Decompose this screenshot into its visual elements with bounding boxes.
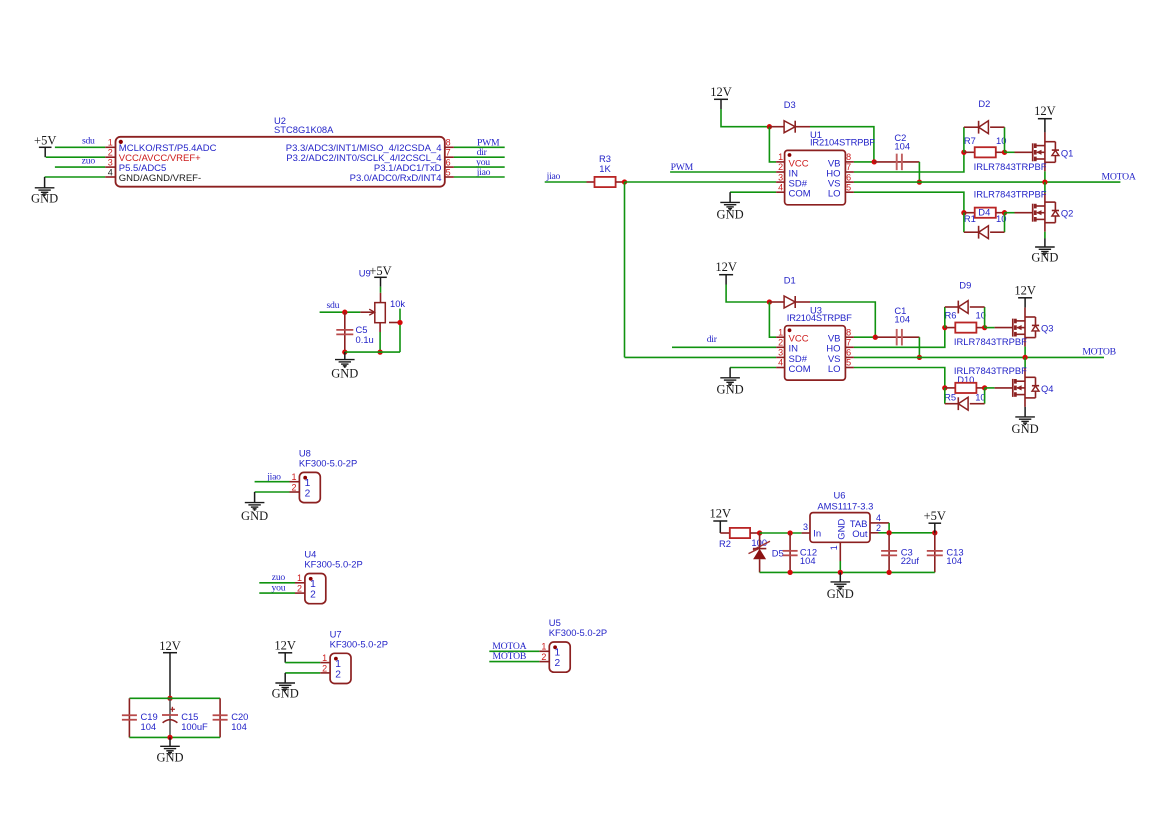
svg-text:22uf: 22uf: [901, 555, 920, 566]
svg-text:MOTOA: MOTOA: [1102, 171, 1136, 182]
svg-text:12V: 12V: [710, 85, 732, 99]
svg-text:KF300-5.0-2P: KF300-5.0-2P: [304, 559, 362, 570]
junction R5 right: [982, 385, 987, 390]
svg-text:4: 4: [876, 513, 881, 523]
junction pot right: [397, 320, 402, 325]
ground GND (U7): [272, 673, 299, 701]
transistor Q3 IRLR7843TRPBF: [954, 308, 1054, 348]
net label MOTOB: [1082, 347, 1116, 358]
diode D9: [945, 280, 985, 328]
wire R2 node to C12/In: [760, 532, 802, 534]
svg-text:IR2104STRPBF: IR2104STRPBF: [810, 137, 875, 148]
svg-text:R2: R2: [719, 538, 731, 549]
junction 12V/D1 (U3): [767, 299, 772, 304]
junction R1 left: [961, 210, 966, 215]
junction VB/C2: [872, 159, 877, 164]
svg-text:12V: 12V: [710, 507, 732, 521]
capacitor C12 104: [772, 533, 817, 572]
svg-text:2: 2: [108, 148, 113, 158]
svg-text:Q3: Q3: [1041, 323, 1054, 334]
net label jiao (R3 input): [546, 171, 561, 182]
svg-text:104: 104: [946, 555, 962, 566]
svg-text:100uF: 100uF: [181, 721, 208, 732]
svg-text:KF300-5.0-2P: KF300-5.0-2P: [330, 638, 388, 649]
wire VS to MOTOB: [854, 356, 1104, 358]
svg-text:7: 7: [446, 148, 451, 158]
wire R3 to U1 SD#: [625, 181, 777, 183]
resistor R6 10: [945, 309, 986, 332]
junction R7 right: [1002, 150, 1007, 155]
resistor R3 1K: [587, 153, 625, 187]
svg-text:+5V: +5V: [924, 509, 946, 523]
wire top rail (caps): [129, 697, 220, 699]
svg-text:IRLR7843TRPBF: IRLR7843TRPBF: [974, 161, 1047, 172]
wire to U3 SD#: [625, 356, 777, 358]
svg-text:GND: GND: [1031, 251, 1058, 265]
potentiometer U9 10k: [359, 268, 406, 333]
svg-text:R1: R1: [964, 213, 976, 224]
connector U7 KF300-5.0-2P: [320, 628, 388, 683]
ground GND (Q4): [1012, 407, 1039, 436]
ground GND (cap bank): [156, 737, 183, 764]
wire U2 pin5 jiao: [454, 176, 505, 178]
diode D4: [964, 213, 1005, 239]
wire U1 HO to R7: [854, 152, 964, 172]
svg-text:KF300-5.0-2P: KF300-5.0-2P: [299, 458, 357, 469]
svg-text:2: 2: [876, 523, 881, 533]
svg-text:1: 1: [541, 642, 546, 652]
wire zuo to U4 pin1: [259, 582, 295, 584]
svg-text:104: 104: [231, 721, 247, 732]
ground GND (pot): [331, 352, 358, 380]
svg-text:GND: GND: [717, 207, 744, 221]
svg-text:6: 6: [446, 157, 451, 167]
wire U1 VB to junction: [854, 161, 874, 163]
svg-text:sdu: sdu: [327, 300, 340, 311]
connector U5 KF300-5.0-2P: [539, 617, 607, 672]
capacitor C19 104: [122, 698, 158, 737]
junction rail/C12: [787, 570, 792, 575]
wire dir to U3 IN: [672, 346, 776, 348]
junction MOTOA node: [1042, 179, 1047, 184]
svg-text:PWM: PWM: [671, 162, 694, 173]
svg-text:2: 2: [297, 584, 302, 594]
connector U8 KF300-5.0-2P: [290, 447, 358, 502]
svg-text:MOTOB: MOTOB: [1082, 347, 1116, 358]
svg-text:3: 3: [778, 348, 783, 358]
power 12V (Q1): [1034, 104, 1056, 132]
svg-text:6: 6: [846, 172, 851, 182]
wire PWM to U1 IN: [670, 171, 776, 173]
regulator U6 AMS1117-3.3: [802, 490, 881, 561]
net label PWM (U1 IN): [671, 162, 694, 173]
junction GND rail: [167, 735, 172, 740]
svg-text:you: you: [272, 582, 286, 593]
wire U3 LO to R5: [854, 368, 945, 388]
wire bottom rail (caps): [129, 736, 220, 738]
wire D1 to VB node: [810, 302, 875, 336]
LED D5: [749, 533, 771, 572]
diode D10: [945, 388, 985, 410]
capacitor C5 0.1u: [336, 312, 373, 352]
connector U4 KF300-5.0-2P: [295, 549, 363, 604]
svg-text:AMS1117-3.3: AMS1117-3.3: [817, 501, 873, 512]
gate driver U3 IR2104STRPBF: [776, 304, 854, 380]
wire gate Q2: [1005, 212, 1033, 214]
svg-text:dir: dir: [707, 334, 718, 345]
wire bottom rail (U6): [760, 571, 935, 573]
net label zuo (U2 pin3): [82, 156, 96, 167]
svg-text:4: 4: [108, 167, 113, 177]
svg-text:2: 2: [310, 590, 316, 601]
wire U2 pin4 to ground: [45, 176, 106, 178]
svg-text:5: 5: [846, 182, 851, 192]
junction 12V/D3 (U1): [767, 124, 772, 129]
svg-text:5: 5: [846, 358, 851, 368]
svg-text:Q4: Q4: [1041, 383, 1054, 394]
svg-text:GND: GND: [241, 509, 268, 523]
junction pot bottom: [377, 349, 382, 354]
junction C12 top: [787, 530, 792, 535]
svg-text:1: 1: [291, 472, 296, 482]
svg-text:MOTOB: MOTOB: [493, 651, 527, 662]
junction Out/+5V: [932, 530, 937, 535]
wire MOTOB to U5 pin2: [489, 661, 539, 663]
svg-text:IRLR7843TRPBF: IRLR7843TRPBF: [974, 189, 1047, 200]
svg-text:0.1u: 0.1u: [356, 334, 374, 345]
net label MOTOB (U5): [493, 651, 527, 662]
wire +5V to U2 pin2: [46, 156, 105, 158]
net label you (U2 pin6): [476, 157, 490, 168]
wire Q1 source to MOTOA node: [1044, 171, 1046, 182]
svg-text:Out: Out: [852, 529, 868, 540]
svg-text:4: 4: [778, 358, 783, 368]
svg-text:1: 1: [778, 327, 783, 337]
net label jiao (U2 pin5): [476, 167, 491, 178]
transistor Q4 IRLR7843TRPBF: [954, 365, 1054, 407]
svg-text:+5V: +5V: [34, 133, 56, 147]
svg-text:7: 7: [846, 338, 851, 348]
wire pot bottom: [379, 332, 381, 352]
wire sdu to wiper: [320, 311, 361, 313]
svg-text:2: 2: [322, 663, 327, 673]
junction rail/GND: [838, 570, 843, 575]
wire U2 pin6 you: [454, 166, 505, 168]
svg-text:3: 3: [778, 172, 783, 182]
resistor R5 10: [944, 374, 986, 403]
wire U1 COM to ground: [730, 191, 776, 193]
wire D3 to VB node: [810, 127, 874, 161]
wire U2 pin8 PWM: [454, 146, 505, 148]
power 12V (U7): [274, 639, 296, 663]
ground GND (U8): [241, 492, 268, 523]
svg-text:GND: GND: [827, 587, 854, 601]
svg-text:12V: 12V: [1014, 283, 1036, 297]
svg-text:1: 1: [297, 573, 302, 583]
svg-text:COM: COM: [789, 364, 811, 375]
net label PWM (U2 pin8): [477, 137, 500, 148]
capacitor C15 100uF: [162, 698, 208, 737]
svg-text:1: 1: [829, 545, 839, 550]
svg-text:GND: GND: [836, 519, 847, 540]
svg-text:5: 5: [446, 167, 451, 177]
power 12V (U1): [710, 85, 732, 109]
wire Q2 source to ground: [1044, 232, 1046, 239]
svg-text:3: 3: [803, 522, 808, 532]
wire Q3 source to MOTOB node: [1024, 347, 1026, 358]
svg-text:In: In: [813, 529, 821, 540]
wire pot right branch: [399, 309, 401, 353]
ground GND (U1 COM): [717, 192, 744, 221]
power 12V (Q3): [1014, 283, 1036, 307]
junction R1 right: [1002, 210, 1007, 215]
svg-text:R7: R7: [964, 135, 976, 146]
svg-text:P3.0/ADC0/RxD/INT4: P3.0/ADC0/RxD/INT4: [350, 173, 442, 184]
svg-text:104: 104: [894, 313, 910, 324]
net label dir (U3 IN): [707, 334, 718, 345]
svg-text:KF300-5.0-2P: KF300-5.0-2P: [549, 627, 607, 638]
junction R7 left: [961, 150, 966, 155]
svg-text:10k: 10k: [390, 298, 405, 309]
diode D1: [769, 274, 810, 308]
junction R5 left: [942, 385, 947, 390]
svg-text:D3: D3: [784, 99, 796, 110]
svg-text:LO: LO: [828, 364, 841, 375]
resistor R1 10: [964, 207, 1007, 224]
svg-text:Q1: Q1: [1061, 147, 1074, 158]
wire C2 to VS: [918, 162, 920, 182]
svg-text:1: 1: [108, 138, 113, 148]
svg-text:D5: D5: [772, 548, 784, 559]
svg-text:2: 2: [778, 162, 783, 172]
wire junction to U3 VCC: [769, 302, 776, 337]
svg-text:12V: 12V: [159, 639, 181, 653]
junction rail/C3: [886, 570, 891, 575]
wire you to U4 pin2: [259, 592, 295, 594]
diode D2: [964, 98, 1005, 152]
wire U6 GND pin down: [839, 561, 841, 572]
junction 12V rail: [167, 696, 172, 701]
wire jiao to R3: [545, 181, 587, 183]
svg-text:2: 2: [335, 669, 341, 680]
wire TAB to Out node: [879, 523, 890, 533]
transistor Q1 IRLR7843TRPBF: [974, 132, 1074, 172]
junction VB/C1: [873, 335, 878, 340]
wire U3 HO to R6: [854, 328, 945, 348]
svg-text:IRLR7843TRPBF: IRLR7843TRPBF: [954, 365, 1027, 376]
svg-text:GND: GND: [272, 686, 299, 700]
capacitor C2 104: [874, 132, 919, 170]
wire junction to U1 VCC: [769, 127, 776, 162]
net label jiao (U8): [266, 472, 281, 483]
net label zuo (U4): [272, 572, 286, 583]
svg-text:IRLR7843TRPBF: IRLR7843TRPBF: [954, 336, 1027, 347]
power 12V (cap bank): [159, 639, 181, 699]
svg-text:8: 8: [446, 138, 451, 148]
wire gate Q3: [985, 327, 1013, 329]
junction MOTOB node: [1022, 355, 1027, 360]
net label MOTOA (U5): [492, 641, 526, 652]
svg-text:R5: R5: [944, 392, 956, 403]
wire bottom rail (pot): [345, 351, 400, 353]
wire Out to +5V: [879, 532, 935, 534]
svg-text:GND: GND: [31, 191, 58, 205]
junction wiper/C5: [342, 310, 347, 315]
svg-text:+5V: +5V: [369, 264, 391, 278]
svg-text:104: 104: [800, 555, 816, 566]
svg-text:STC8G1K08A: STC8G1K08A: [274, 124, 334, 135]
svg-text:D2: D2: [978, 98, 990, 109]
svg-text:12V: 12V: [715, 260, 737, 274]
capacitor C3 22uf: [881, 533, 919, 573]
svg-text:Q2: Q2: [1061, 207, 1074, 218]
svg-text:D9: D9: [959, 280, 971, 291]
svg-text:LO: LO: [828, 189, 841, 200]
wire MOTOA to U5 pin1: [489, 650, 539, 652]
wire VS to MOTOA: [854, 181, 1121, 183]
wire C1 to VS: [918, 337, 920, 357]
svg-text:8: 8: [846, 327, 851, 337]
junction Out/C3: [886, 530, 891, 535]
transistor Q2 IRLR7843TRPBF: [974, 189, 1074, 232]
net label sdu (pot wiper): [327, 300, 340, 311]
junction R6 right: [982, 325, 987, 330]
ground GND (U3 COM): [717, 368, 744, 397]
capacitor C1 104: [875, 305, 919, 345]
wire +5V to pot: [380, 287, 382, 293]
wire sdu to U2 pin1: [55, 146, 105, 148]
power +5V (U6): [924, 509, 946, 533]
svg-text:D4: D4: [978, 207, 990, 218]
junction C5/ground: [342, 349, 347, 354]
svg-text:1K: 1K: [599, 163, 611, 174]
svg-text:jiao: jiao: [546, 171, 561, 182]
power +5V (U9): [369, 264, 391, 287]
svg-text:4: 4: [778, 182, 783, 192]
svg-text:GND/AGND/VREF-: GND/AGND/VREF-: [119, 173, 201, 184]
svg-text:1: 1: [322, 653, 327, 663]
svg-text:12V: 12V: [274, 639, 296, 653]
net label sdu (U2 pin1): [82, 136, 95, 147]
wire U2 pin7 dir: [454, 156, 505, 158]
svg-text:zuo: zuo: [272, 572, 286, 583]
ground GND (U2): [31, 177, 58, 205]
wire MOTOB node to Q4 drain: [1024, 357, 1026, 368]
power +5V (U2 VCC): [34, 133, 56, 157]
wire U3 COM to ground: [730, 367, 776, 369]
wire 12V to U7 pin1: [285, 662, 320, 664]
svg-text:2: 2: [778, 338, 783, 348]
svg-text:3: 3: [108, 157, 113, 167]
capacitor C20 104: [213, 698, 249, 737]
svg-text:104: 104: [894, 141, 910, 152]
svg-text:zuo: zuo: [82, 156, 96, 167]
svg-text:D1: D1: [784, 274, 796, 285]
svg-text:2: 2: [305, 488, 311, 499]
resistor R2 100: [719, 528, 760, 549]
wire R3 node down to U3 SD#: [624, 182, 626, 357]
wire MOTOA node to Q2 drain: [1044, 182, 1046, 193]
net label dir (U2 pin7): [477, 147, 488, 158]
svg-text:12V: 12V: [1034, 104, 1056, 118]
svg-text:7: 7: [846, 162, 851, 172]
wire U1 LO to R1: [854, 192, 964, 213]
svg-text:2: 2: [555, 658, 561, 669]
svg-text:GND: GND: [717, 383, 744, 397]
junction C1/VS: [917, 355, 922, 360]
wire 12V down (U3): [726, 285, 768, 303]
svg-text:IR2104STRPBF: IR2104STRPBF: [787, 312, 852, 323]
svg-text:1: 1: [778, 152, 783, 162]
wire gate Q4: [985, 387, 1013, 389]
svg-text:U6: U6: [834, 490, 846, 501]
ground GND (U6): [827, 572, 854, 600]
svg-text:GND: GND: [1012, 422, 1039, 436]
wire U3 VB to junction: [854, 336, 875, 338]
power 12V (U3): [715, 260, 737, 285]
junction R2/D5: [757, 530, 762, 535]
ground GND (Q2): [1031, 239, 1058, 265]
svg-text:sdu: sdu: [82, 136, 95, 147]
svg-text:8: 8: [846, 152, 851, 162]
junction C2/VS: [917, 179, 922, 184]
diode D3: [769, 99, 810, 133]
wire gate Q1: [1005, 151, 1033, 153]
power 12V (U6): [710, 507, 732, 534]
net label you (U4): [272, 582, 286, 593]
svg-text:6: 6: [846, 348, 851, 358]
svg-text:R6: R6: [945, 309, 957, 320]
wire U7 pin2 to ground: [285, 672, 320, 674]
net label MOTOA: [1102, 171, 1136, 182]
wire jiao to U8 pin1: [255, 481, 290, 483]
svg-text:104: 104: [141, 721, 157, 732]
MCU U2 STC8G1K08A: [105, 115, 454, 187]
gate driver U1 IR2104STRPBF: [776, 129, 875, 205]
svg-text:2: 2: [541, 652, 546, 662]
svg-text:GND: GND: [331, 366, 358, 380]
junction R6 left: [942, 325, 947, 330]
wire U8 pin2 to ground: [255, 491, 290, 493]
wire zuo to U2 pin3: [55, 166, 105, 168]
svg-text:2: 2: [291, 482, 296, 492]
capacitor C13 104: [927, 533, 964, 573]
junction R3 output: [622, 179, 627, 184]
wire 12V down (U1): [721, 109, 768, 127]
svg-text:GND: GND: [156, 750, 183, 764]
svg-text:U9: U9: [359, 268, 371, 279]
resistor R7 10: [964, 135, 1007, 158]
svg-text:COM: COM: [789, 189, 811, 200]
